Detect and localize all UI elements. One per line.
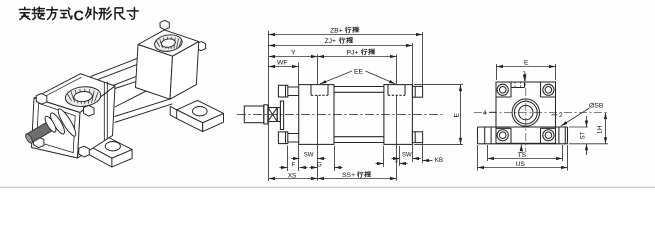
- cap port EE: [388, 85, 405, 96]
- cap block front face: [136, 45, 173, 100]
- head block right face: [78, 86, 116, 158]
- leader 2 dash: [552, 114, 558, 116]
- dim ZB: [269, 34, 423, 36]
- SW left: [291, 158, 299, 160]
- centerline vertical: [525, 73, 527, 152]
- tube bottom silhouette: [115, 91, 146, 107]
- US ext + dim: [478, 145, 568, 171]
- center bore circles: [512, 99, 539, 126]
- E ext lines: [497, 64, 556, 80]
- corner pad lines: [496, 82, 511, 97]
- svg-text:2: 2: [559, 112, 563, 119]
- rod threaded section: [27, 123, 52, 143]
- dim labels middle: [277, 27, 461, 179]
- svg-text:LH: LH: [597, 126, 604, 134]
- port notch top: [511, 82, 525, 88]
- square head plate: [496, 82, 556, 143]
- rod collar stack: [43, 107, 78, 138]
- SS: [318, 178, 397, 180]
- E dim middle right: [414, 85, 463, 145]
- ST ext + dim: [569, 127, 608, 144]
- head block front face: [32, 98, 81, 158]
- XS: [269, 178, 318, 180]
- svg-text:ST: ST: [580, 131, 587, 139]
- svg-text:EE: EE: [354, 69, 364, 76]
- J: [375, 163, 383, 165]
- E dim: [497, 66, 556, 68]
- cap rear nut right: [197, 42, 206, 51]
- leader 3: [520, 145, 522, 149]
- svg-text:E: E: [454, 113, 461, 118]
- dim WF: [269, 66, 299, 68]
- EE leaders: [320, 71, 352, 84]
- cap tie-rod nut bottom: [412, 132, 422, 143]
- gland center plate: [280, 101, 283, 130]
- piston rod: [244, 106, 263, 123]
- svg-text:G: G: [317, 162, 322, 168]
- cap block: [384, 85, 413, 145]
- head tie-rod nut bottom: [278, 132, 287, 144]
- dim Y / PJ: [269, 56, 318, 58]
- title 安装方式C外形尺寸: [19, 7, 138, 24]
- svg-text:Y: Y: [291, 50, 296, 57]
- tie rod top pair: [91, 58, 138, 79]
- head face nuts: [33, 94, 94, 157]
- leader 4 dash: [490, 111, 496, 113]
- head top chamfer: [38, 77, 82, 100]
- svg-text:ØSB: ØSB: [589, 103, 604, 110]
- dimension framework middle: [269, 31, 464, 181]
- svg-text:J: J: [395, 159, 398, 165]
- svg-text:TS: TS: [518, 152, 527, 159]
- KB: [423, 160, 433, 162]
- centerline: [237, 114, 445, 116]
- rod collar: [264, 105, 268, 124]
- head foot bracket: [87, 137, 133, 168]
- G: [309, 167, 317, 169]
- cap block right face: [170, 42, 199, 100]
- svg-text:SW: SW: [304, 153, 314, 159]
- tube top silhouette: [114, 76, 137, 89]
- cap block top face: [138, 30, 199, 56]
- svg-text:SS+: SS+: [342, 172, 355, 179]
- centerline horizontal: [474, 112, 608, 114]
- svg-text:4: 4: [483, 110, 487, 117]
- LH dim: [605, 113, 607, 144]
- svg-text:US: US: [516, 161, 526, 168]
- svg-text:F: F: [292, 162, 296, 168]
- rod thread block: [268, 108, 277, 122]
- tie rod nut circles: [497, 84, 508, 95]
- tie rod stubs head: [288, 87, 299, 142]
- cap rear nut top: [160, 20, 169, 29]
- head port boss: [64, 85, 101, 108]
- svg-text:C: C: [74, 9, 85, 25]
- foot plate: [478, 127, 568, 144]
- svg-text:ZB+: ZB+: [330, 28, 343, 35]
- head block top face: [34, 74, 115, 113]
- ext lines vertical: [268, 31, 270, 181]
- leader 1: [524, 75, 526, 81]
- svg-text:E: E: [524, 60, 529, 67]
- svg-text:KB: KB: [435, 157, 443, 164]
- svg-text:XS: XS: [288, 172, 297, 179]
- SW right: [391, 158, 399, 160]
- foot bolt holes: [485, 127, 566, 144]
- tie rod bottom pair: [115, 99, 173, 123]
- cap port boss: [154, 33, 184, 53]
- head block: [299, 85, 334, 145]
- TS ext + dim: [488, 145, 563, 161]
- svg-text:ZJ+: ZJ+: [325, 38, 337, 45]
- svg-text:1: 1: [523, 71, 527, 78]
- tube and tie rods: [334, 87, 384, 143]
- bottom faint rule: [0, 186, 655, 188]
- head port EE: [311, 85, 328, 96]
- cap tie-rod nut top: [412, 86, 422, 97]
- cap foot bracket: [170, 100, 223, 131]
- leader OSB: [561, 108, 590, 126]
- svg-text:WF: WF: [277, 60, 288, 67]
- dim ZJ: [269, 45, 413, 47]
- head tie-rod nut top: [278, 85, 287, 97]
- F: [279, 167, 287, 169]
- svg-text:SW: SW: [402, 153, 412, 159]
- svg-text:PJ+: PJ+: [347, 50, 359, 57]
